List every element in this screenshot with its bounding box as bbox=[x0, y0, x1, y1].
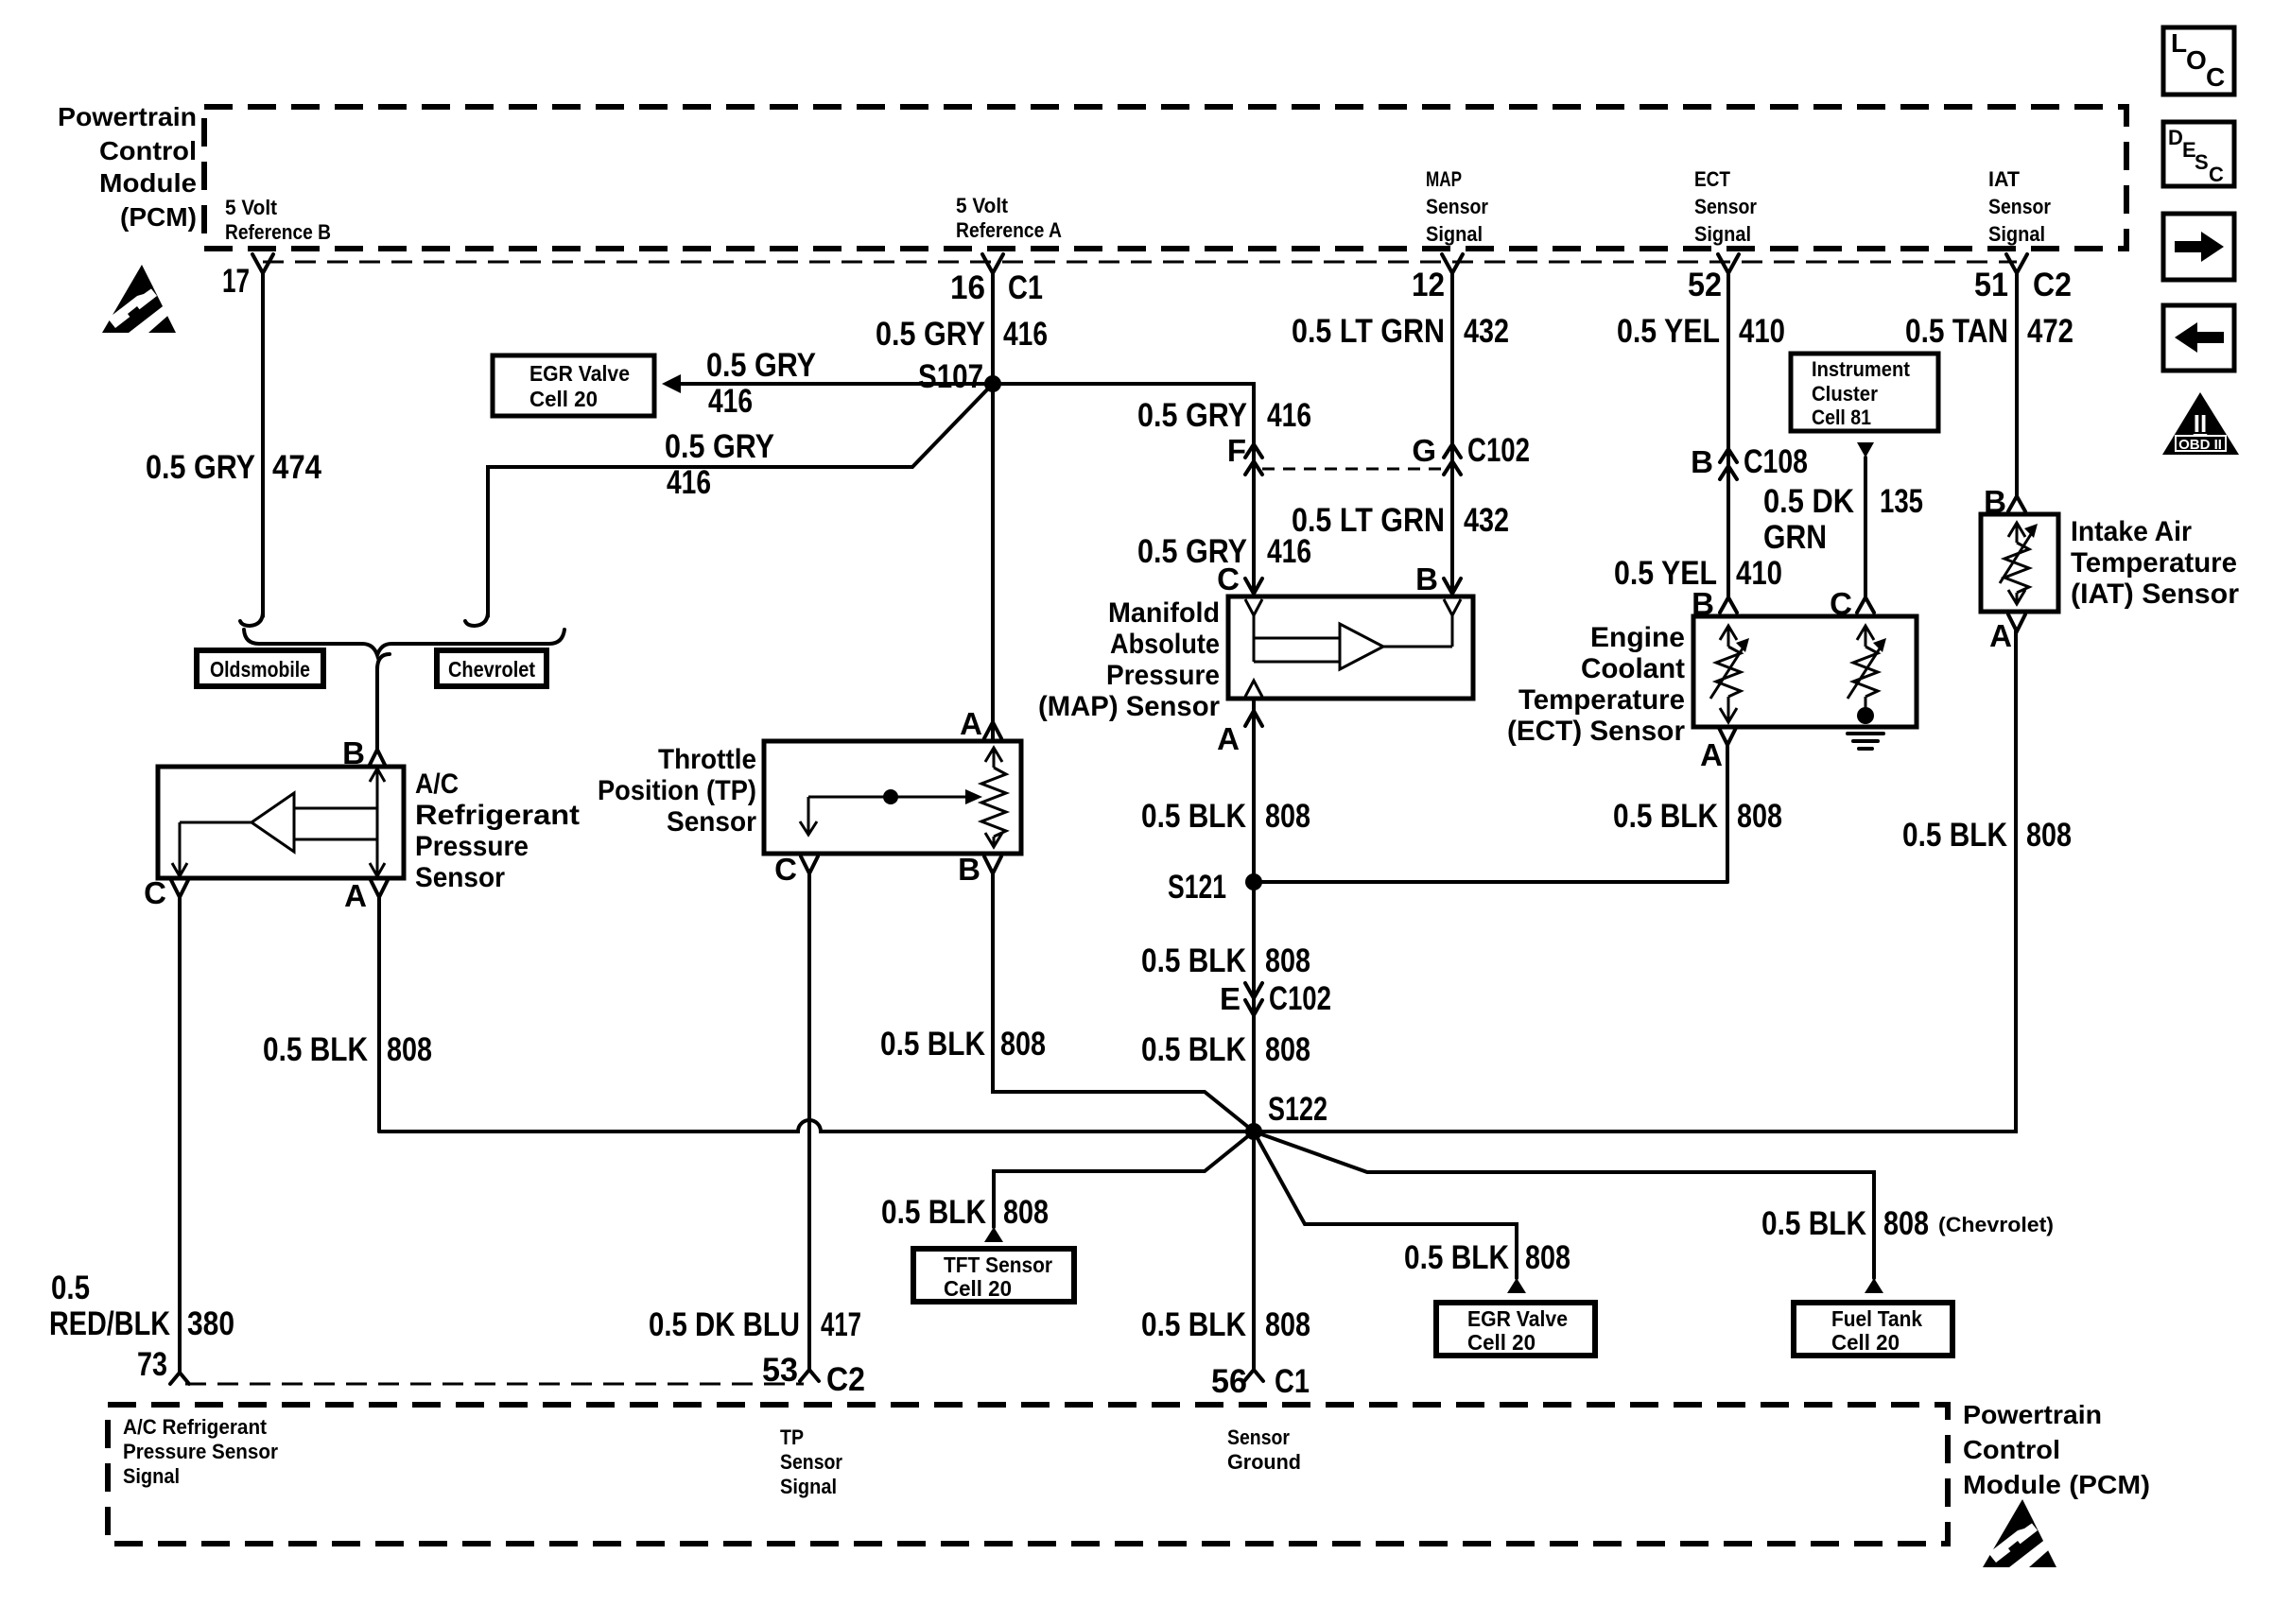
svg-text:OBD II: OBD II bbox=[2178, 437, 2222, 453]
label: IAT Sensor Signal bbox=[1988, 167, 2051, 246]
svg-text:C1: C1 bbox=[1008, 269, 1043, 306]
wire 432 (0.5 LT GRN) pin 12 to C102 G bbox=[1450, 273, 1454, 596]
svg-text:0.5 DK BLU: 0.5 DK BLU bbox=[649, 1306, 800, 1343]
svg-text:C1: C1 bbox=[1275, 1363, 1310, 1400]
wire 808 (0.5 BLK) A/C pin A down to S122 line bbox=[377, 897, 381, 1132]
label: 5 Volt Reference B bbox=[225, 196, 331, 244]
svg-text:5 Volt: 5 Volt bbox=[956, 194, 1009, 217]
svg-text:0.5 BLK: 0.5 BLK bbox=[1141, 798, 1246, 835]
svg-text:Oldsmobile: Oldsmobile bbox=[210, 657, 310, 682]
svg-text:EGR Valve: EGR Valve bbox=[1467, 1306, 1568, 1331]
svg-text:0.5 BLK: 0.5 BLK bbox=[263, 1031, 368, 1068]
svg-text:135: 135 bbox=[1880, 483, 1923, 520]
svg-text:S122: S122 bbox=[1268, 1091, 1327, 1128]
wire 808 (0.5 BLK) MAP A down to S121 bbox=[1252, 699, 1256, 882]
wire 416 (0.5 GRY) S107 to C102 F to MAP C bbox=[993, 384, 1254, 596]
A/C pin B fork bbox=[369, 750, 386, 767]
svg-text:Ground: Ground bbox=[1227, 1450, 1301, 1474]
svg-text:C2: C2 bbox=[2033, 267, 2072, 303]
svg-text:Signal: Signal bbox=[123, 1464, 180, 1488]
svg-text:0.5 DK: 0.5 DK bbox=[1763, 483, 1854, 520]
label: Powertrain Control Module (PCM) top-left bbox=[58, 102, 197, 232]
svg-text:Module (PCM): Module (PCM) bbox=[1963, 1470, 2150, 1499]
pin 73 connector fork bbox=[170, 1373, 189, 1384]
svg-text:808: 808 bbox=[1525, 1239, 1570, 1276]
svg-text:C102: C102 bbox=[1269, 980, 1331, 1017]
wire: S121 to ECT pin A bbox=[1254, 880, 1727, 884]
svg-text:416: 416 bbox=[667, 464, 711, 501]
wire 474 end hook (Oldsmobile option) bbox=[240, 610, 263, 626]
wire 410 (0.5 YEL) pin 52 to C108 bbox=[1726, 273, 1730, 598]
icon: DESC box bbox=[2163, 122, 2234, 186]
svg-text:0.5 BLK: 0.5 BLK bbox=[880, 1026, 985, 1063]
svg-text:0.5 YEL: 0.5 YEL bbox=[1617, 313, 1720, 350]
label: 5 Volt Reference A bbox=[956, 194, 1062, 242]
connector C102 pin G chevrons bbox=[1444, 444, 1461, 475]
svg-text:C: C bbox=[2206, 62, 2225, 92]
icon: back arrow box bbox=[2163, 305, 2234, 371]
label: Intake Air Temperature (IAT) Sensor bbox=[2071, 516, 2239, 610]
label: Throttle Position (TP) Sensor bbox=[598, 744, 756, 838]
svg-text:808: 808 bbox=[2026, 817, 2072, 854]
TP internal potentiometer resistor bbox=[981, 748, 1006, 847]
wire: S107 to EGR valve arrow bbox=[679, 382, 993, 386]
svg-text:Sensor: Sensor bbox=[667, 806, 756, 838]
svg-text:5 Volt: 5 Volt bbox=[225, 196, 278, 219]
wire from brace to A/C sensor pin B bbox=[375, 667, 379, 750]
svg-text:Powertrain: Powertrain bbox=[1963, 1400, 2102, 1429]
svg-text:416: 416 bbox=[1003, 316, 1048, 353]
pin 53 connector fork bbox=[800, 1370, 819, 1381]
svg-text:ECT: ECT bbox=[1694, 167, 1730, 191]
svg-text:S107: S107 bbox=[918, 358, 983, 395]
TP wiper arrow bbox=[800, 789, 982, 835]
svg-text:Reference B: Reference B bbox=[225, 220, 331, 244]
svg-text:A: A bbox=[960, 706, 982, 741]
PCM top dashed box (Powertrain Control Module) bbox=[204, 107, 2126, 249]
wire 474 (0.5 GRY) from pin 17 bbox=[261, 273, 265, 616]
MAP internal pin A fork bbox=[1245, 681, 1262, 697]
svg-text:MAP: MAP bbox=[1426, 167, 1462, 191]
svg-text:Sensor: Sensor bbox=[415, 862, 505, 893]
svg-text:432: 432 bbox=[1464, 313, 1509, 350]
svg-text:0.5 LT GRN: 0.5 LT GRN bbox=[1292, 502, 1445, 539]
icon: forward arrow box bbox=[2163, 214, 2234, 280]
svg-text:Cell 20: Cell 20 bbox=[1831, 1330, 1900, 1355]
svg-text:C: C bbox=[144, 875, 166, 910]
label: MAP Sensor Signal bbox=[1426, 167, 1488, 246]
svg-text:Instrument: Instrument bbox=[1812, 357, 1911, 381]
svg-text:Signal: Signal bbox=[1694, 222, 1751, 246]
svg-text:472: 472 bbox=[2027, 313, 2073, 350]
svg-text:C: C bbox=[2209, 163, 2224, 186]
connector C102 pin F chevrons bbox=[1245, 444, 1262, 475]
off-page triangle to EGR valve bbox=[1507, 1278, 1526, 1293]
svg-text:0.5 GRY: 0.5 GRY bbox=[665, 428, 774, 465]
IAT internal thermistor bbox=[2000, 523, 2038, 604]
pin 12 connector fork bbox=[1442, 254, 1463, 273]
svg-text:Cell 20: Cell 20 bbox=[1467, 1330, 1536, 1355]
svg-text:Control: Control bbox=[99, 136, 197, 165]
svg-text:EGR Valve: EGR Valve bbox=[529, 361, 630, 386]
svg-text:B: B bbox=[1415, 561, 1438, 596]
svg-text:C: C bbox=[774, 852, 797, 887]
wire: S122 to EGR valve branch bbox=[1254, 1132, 1517, 1278]
wire 417 (0.5 DK BLU) TP pin C to PCM 53 bbox=[807, 873, 811, 1370]
svg-text:TFT Sensor: TFT Sensor bbox=[944, 1253, 1052, 1277]
Fuel Tank Cell 20 box bbox=[1794, 1303, 1952, 1356]
label: A/C Refrigerant Pressure Sensor bbox=[415, 769, 580, 893]
off-page triangle to Fuel Tank bbox=[1865, 1278, 1883, 1293]
svg-text:Cell 20: Cell 20 bbox=[529, 387, 598, 411]
svg-text:808: 808 bbox=[1737, 798, 1782, 835]
svg-text:O: O bbox=[2186, 45, 2207, 75]
svg-text:432: 432 bbox=[1464, 502, 1509, 539]
ESD static-sensitive symbol top-left bbox=[102, 265, 176, 333]
svg-text:0.5 BLK: 0.5 BLK bbox=[1902, 817, 2007, 854]
svg-text:Throttle: Throttle bbox=[658, 744, 756, 775]
svg-text:Pressure: Pressure bbox=[1106, 660, 1220, 691]
svg-text:TP: TP bbox=[780, 1425, 804, 1449]
Intake Air Temperature (IAT) Sensor box bbox=[1981, 514, 2058, 612]
wire: S122 down to PCM pin 56 (sensor ground) bbox=[1252, 1132, 1256, 1370]
MAP internal amplifier bbox=[1254, 615, 1452, 669]
svg-text:808: 808 bbox=[1265, 1306, 1310, 1343]
svg-text:Powertrain: Powertrain bbox=[58, 102, 197, 131]
wire: S122 main horizontal left to A/C pin A wire (hop over TP C wire) bbox=[379, 1120, 1254, 1132]
label: TP Sensor Signal bbox=[780, 1425, 842, 1498]
svg-text:(PCM): (PCM) bbox=[120, 202, 197, 232]
svg-text:Cluster: Cluster bbox=[1812, 382, 1878, 406]
svg-text:0.5: 0.5 bbox=[51, 1270, 90, 1306]
svg-text:C2: C2 bbox=[826, 1361, 865, 1398]
svg-text:Coolant: Coolant bbox=[1581, 653, 1685, 684]
icon: LOC box bbox=[2163, 27, 2234, 95]
svg-text:380: 380 bbox=[187, 1305, 234, 1342]
svg-text:IAT: IAT bbox=[1988, 167, 2021, 191]
hook below brace center bbox=[377, 654, 390, 669]
arrowhead into EGR Valve bbox=[662, 374, 681, 393]
pin 17 connector fork bbox=[252, 254, 273, 273]
svg-text:Sensor: Sensor bbox=[1426, 195, 1488, 218]
svg-text:808: 808 bbox=[1003, 1194, 1049, 1231]
A/C Refrigerant Pressure Sensor box bbox=[158, 767, 404, 878]
label: 0.5 RED/BLK 380 bbox=[49, 1270, 234, 1342]
svg-text:L: L bbox=[2171, 28, 2187, 58]
svg-text:Signal: Signal bbox=[780, 1475, 837, 1498]
Throttle Position (TP) Sensor box bbox=[764, 741, 1021, 854]
svg-text:Cell 20: Cell 20 bbox=[944, 1276, 1012, 1301]
thin dashed connector line bottom (73 to 53) bbox=[185, 1383, 804, 1386]
svg-text:G: G bbox=[1412, 433, 1436, 468]
connector C102 pin E chevrons bbox=[1245, 983, 1262, 1015]
svg-text:52: 52 bbox=[1688, 267, 1722, 303]
icon: OBD II triangle bbox=[2162, 392, 2239, 455]
svg-text:E: E bbox=[1220, 981, 1241, 1016]
svg-text:Sensor: Sensor bbox=[1227, 1425, 1290, 1449]
svg-text:416: 416 bbox=[1267, 533, 1311, 570]
MAP internal pin C fork bbox=[1245, 599, 1262, 615]
svg-text:417: 417 bbox=[821, 1306, 861, 1343]
Oldsmobile tag box bbox=[197, 650, 323, 686]
Instrument Cluster Cell 81 box bbox=[1791, 354, 1938, 431]
pin 16 connector fork bbox=[982, 254, 1003, 273]
svg-text:C108: C108 bbox=[1744, 443, 1808, 480]
svg-text:(Chevrolet): (Chevrolet) bbox=[1938, 1213, 2054, 1236]
svg-text:474: 474 bbox=[272, 449, 321, 486]
svg-text:17: 17 bbox=[222, 263, 250, 300]
svg-text:Fuel Tank: Fuel Tank bbox=[1831, 1306, 1922, 1331]
svg-text:0.5 GRY: 0.5 GRY bbox=[146, 449, 255, 486]
ECT internal thermistor (left) bbox=[1710, 626, 1749, 722]
svg-text:A: A bbox=[1700, 737, 1723, 772]
svg-text:S121: S121 bbox=[1168, 869, 1226, 906]
A/C sensor internal circuit bbox=[172, 769, 385, 876]
off-page triangle from Instrument Cluster bbox=[1857, 442, 1874, 458]
svg-text:0.5 GRY: 0.5 GRY bbox=[1137, 397, 1247, 434]
svg-text:0.5 BLK: 0.5 BLK bbox=[1404, 1239, 1509, 1276]
svg-text:(MAP) Sensor: (MAP) Sensor bbox=[1038, 691, 1220, 722]
svg-text:D: D bbox=[2168, 126, 2183, 149]
svg-text:Chevrolet: Chevrolet bbox=[448, 657, 535, 682]
svg-text:A: A bbox=[1989, 618, 2012, 653]
label: ECT Sensor Signal bbox=[1694, 167, 1757, 246]
svg-text:0.5 LT GRN: 0.5 LT GRN bbox=[1292, 313, 1445, 350]
EGR Valve Cell 20 box (bottom) bbox=[1436, 1303, 1595, 1356]
svg-text:73: 73 bbox=[137, 1346, 167, 1383]
svg-text:410: 410 bbox=[1739, 313, 1785, 350]
svg-text:B: B bbox=[1691, 444, 1713, 479]
Engine Coolant Temperature (ECT) Sensor box bbox=[1693, 616, 1917, 727]
wire 472 (0.5 TAN) pin 51 to IAT B bbox=[2015, 273, 2019, 495]
svg-text:Sensor: Sensor bbox=[1988, 195, 2051, 218]
label: Manifold Absolute Pressure (MAP) Sensor bbox=[1038, 597, 1220, 722]
svg-text:0.5 BLK: 0.5 BLK bbox=[1141, 942, 1246, 979]
svg-text:S: S bbox=[2195, 150, 2209, 174]
svg-text:Reference A: Reference A bbox=[956, 218, 1062, 242]
svg-text:A: A bbox=[344, 878, 367, 913]
svg-text:808: 808 bbox=[1265, 1031, 1310, 1068]
Chevrolet tag box bbox=[437, 650, 547, 686]
svg-text:0.5 BLK: 0.5 BLK bbox=[1761, 1205, 1866, 1242]
label: Engine Coolant Temperature (ECT) Sensor bbox=[1507, 622, 1685, 747]
svg-text:0.5 GRY: 0.5 GRY bbox=[876, 316, 985, 353]
PCM bottom dashed box bbox=[108, 1405, 1948, 1544]
svg-text:Module: Module bbox=[99, 168, 197, 198]
svg-text:Manifold: Manifold bbox=[1108, 597, 1220, 629]
label: A/C Refrigerant Pressure Sensor Signal bbox=[123, 1415, 278, 1488]
svg-text:808: 808 bbox=[1265, 942, 1310, 979]
wire 380 (0.5 RED/BLK) A/C pin C to PCM 73 bbox=[178, 897, 182, 1373]
svg-text:Sensor: Sensor bbox=[1694, 195, 1757, 218]
pin 56 connector fork bbox=[1244, 1370, 1263, 1381]
svg-text:Pressure Sensor: Pressure Sensor bbox=[123, 1440, 278, 1463]
ground symbol at ECT pin C leg bbox=[1848, 707, 1883, 749]
wire 808 (0.5 BLK) TP pin B to S122 bbox=[993, 873, 1254, 1132]
svg-text:808: 808 bbox=[1883, 1205, 1929, 1242]
wire 416 (0.5 GRY) pin16 to S107 to TP sensor A bbox=[991, 273, 995, 741]
ECT internal thermistor (right) with ground bbox=[1848, 626, 1886, 711]
svg-text:Temperature: Temperature bbox=[1518, 684, 1685, 716]
svg-text:Refrigerant: Refrigerant bbox=[415, 800, 580, 831]
MAP internal pin B fork bbox=[1444, 599, 1461, 615]
svg-text:0.5 TAN: 0.5 TAN bbox=[1905, 313, 2008, 350]
svg-text:C: C bbox=[1217, 561, 1240, 596]
label: Sensor Ground bbox=[1227, 1425, 1301, 1474]
svg-text:RED/BLK: RED/BLK bbox=[49, 1305, 170, 1342]
svg-text:Absolute: Absolute bbox=[1110, 629, 1220, 660]
svg-text:Intake Air: Intake Air bbox=[2071, 516, 2192, 547]
svg-text:Position (TP): Position (TP) bbox=[598, 775, 756, 806]
svg-text:0.5 BLK: 0.5 BLK bbox=[1141, 1306, 1246, 1343]
EGR Valve Cell 20 box bbox=[493, 355, 654, 416]
svg-text:A/C: A/C bbox=[415, 769, 459, 800]
svg-text:410: 410 bbox=[1736, 555, 1782, 592]
wire: S122 main horizontal right to IAT pin A wire bbox=[1254, 631, 2016, 1132]
wire 135 (0.5 DK GRN) cluster to ECT C bbox=[1864, 458, 1867, 598]
TFT Sensor Cell 20 box bbox=[913, 1249, 1074, 1302]
TP pin A chevron bbox=[984, 722, 1001, 738]
svg-text:808: 808 bbox=[387, 1031, 432, 1068]
svg-text:Engine: Engine bbox=[1590, 622, 1685, 653]
svg-text:Temperature: Temperature bbox=[2071, 547, 2237, 579]
svg-text:B: B bbox=[958, 852, 980, 887]
svg-text:808: 808 bbox=[1265, 798, 1310, 835]
svg-text:56: 56 bbox=[1211, 1363, 1247, 1400]
svg-text:Cell 81: Cell 81 bbox=[1812, 406, 1871, 429]
wire: S122 to Fuel Tank branch bbox=[1254, 1132, 1874, 1278]
svg-text:416: 416 bbox=[1267, 397, 1311, 434]
svg-text:II: II bbox=[2194, 409, 2207, 438]
svg-text:F: F bbox=[1227, 433, 1246, 468]
svg-text:0.5 BLK: 0.5 BLK bbox=[1141, 1031, 1246, 1068]
svg-text:Control: Control bbox=[1963, 1435, 2060, 1464]
svg-text:0.5 BLK: 0.5 BLK bbox=[1613, 798, 1718, 835]
svg-text:GRN: GRN bbox=[1763, 519, 1827, 556]
Manifold Absolute Pressure (MAP) Sensor box bbox=[1228, 596, 1473, 699]
connector C102 dashed link F to G bbox=[1262, 468, 1444, 471]
svg-text:Pressure: Pressure bbox=[415, 831, 529, 862]
svg-text:0.5 GRY: 0.5 GRY bbox=[706, 347, 816, 384]
connector C1/C2 thin dashed line under PCM box bbox=[263, 261, 2017, 264]
svg-text:16: 16 bbox=[950, 269, 985, 306]
wire: S121 down to C102 E bbox=[1252, 882, 1256, 1132]
pin 51 connector fork bbox=[2006, 254, 2027, 273]
svg-text:A/C Refrigerant: A/C Refrigerant bbox=[123, 1415, 268, 1439]
svg-text:Signal: Signal bbox=[1988, 222, 2045, 246]
svg-text:0.5 BLK: 0.5 BLK bbox=[881, 1194, 986, 1231]
svg-text:416: 416 bbox=[708, 383, 753, 420]
svg-text:(ECT) Sensor: (ECT) Sensor bbox=[1507, 716, 1685, 747]
off-page triangle to TFT sensor bbox=[984, 1227, 1003, 1242]
wire: S122 to TFT sensor branch bbox=[994, 1132, 1254, 1227]
svg-text:C102: C102 bbox=[1467, 432, 1530, 469]
svg-text:Sensor: Sensor bbox=[780, 1450, 842, 1474]
svg-text:12: 12 bbox=[1412, 267, 1445, 303]
svg-text:(IAT) Sensor: (IAT) Sensor bbox=[2071, 579, 2239, 610]
brace joining Oldsmobile / Chevrolet options bbox=[244, 630, 564, 655]
connector C108 pin B chevrons bbox=[1720, 449, 1737, 479]
Chevrolet wire end hook bbox=[465, 610, 488, 626]
svg-text:A: A bbox=[1217, 721, 1240, 756]
label: 0.5 DK GRN 135 bbox=[1763, 483, 1923, 556]
svg-text:Signal: Signal bbox=[1426, 222, 1483, 246]
ESD static-sensitive symbol bottom-right bbox=[1983, 1499, 2056, 1567]
wire: S107 diagonal to Chevrolet branch bbox=[488, 384, 993, 616]
pin 52 connector fork bbox=[1718, 254, 1739, 273]
label: Powertrain Control Module (PCM) bottom-right bbox=[1963, 1400, 2150, 1499]
svg-text:51: 51 bbox=[1974, 267, 2008, 303]
svg-text:808: 808 bbox=[1000, 1026, 1046, 1063]
